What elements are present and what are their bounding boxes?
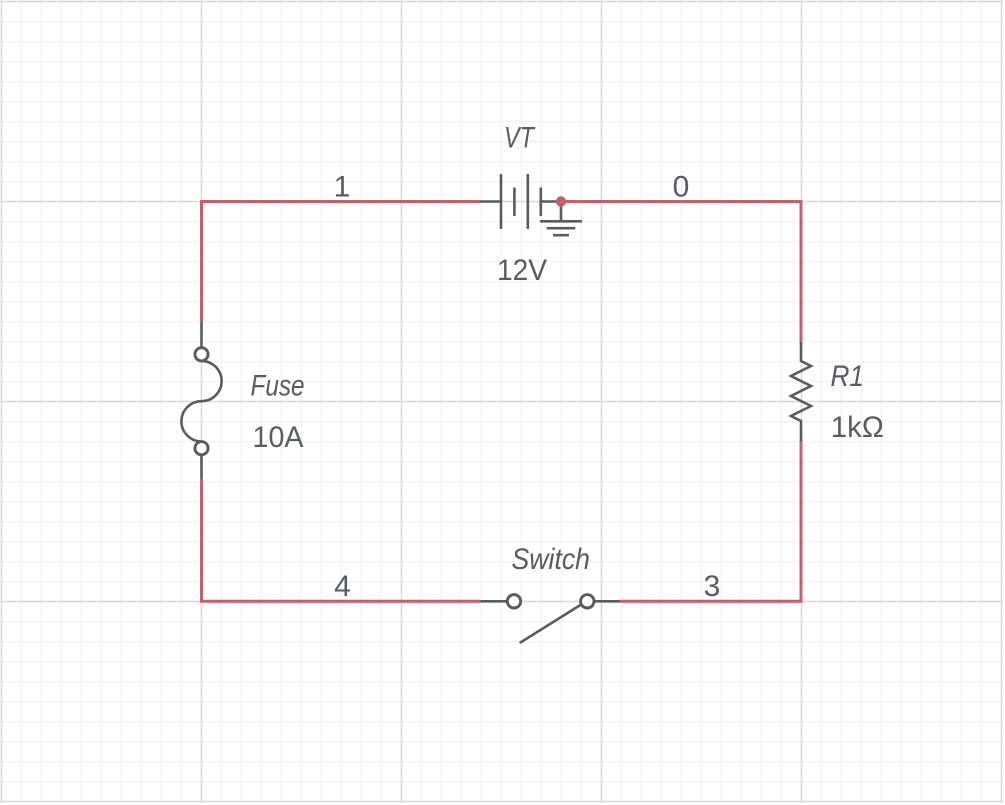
node at battery positive <box>556 196 566 206</box>
switch <box>481 595 620 643</box>
svg-text:R1: R1 <box>831 360 865 393</box>
svg-text:1kΩ: 1kΩ <box>831 411 884 444</box>
svg-text:Switch: Switch <box>512 543 591 576</box>
battery VT <box>480 174 561 229</box>
svg-text:4: 4 <box>334 570 351 603</box>
svg-text:3: 3 <box>704 570 721 603</box>
svg-text:12V: 12V <box>497 254 547 287</box>
wire net 0: battery positive node to resistor top <box>561 202 801 343</box>
svg-text:10A: 10A <box>253 421 304 454</box>
svg-text:VT: VT <box>504 121 536 154</box>
svg-text:1: 1 <box>334 171 351 204</box>
resistor R1 <box>791 342 811 441</box>
svg-text:0: 0 <box>673 171 690 204</box>
fuse <box>181 322 221 479</box>
svg-text:Fuse: Fuse <box>251 370 305 403</box>
wire net 1: fuse top to battery negative <box>202 202 481 323</box>
wire net 4: switch left to fuse bottom <box>202 479 481 601</box>
ground <box>540 202 582 236</box>
wire net 3: resistor bottom to switch right <box>620 441 802 601</box>
